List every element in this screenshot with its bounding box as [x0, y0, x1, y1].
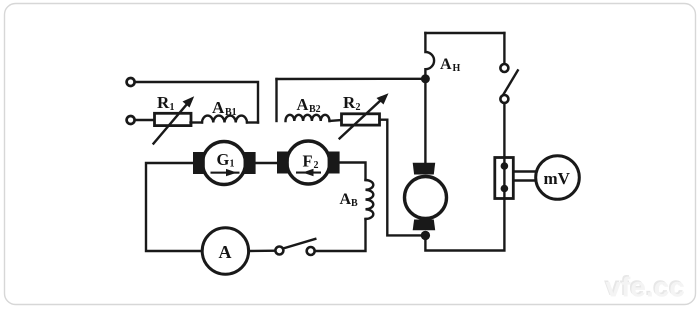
svg-text:2: 2: [356, 102, 361, 113]
inductor AB1: [202, 116, 247, 123]
junction dot bottom: [421, 231, 430, 240]
watermark vfe.cc: [604, 270, 685, 303]
wire R2 right down to motor bottom: [380, 120, 422, 236]
wire AB1 to corner: [247, 121, 258, 123]
wire R1 to AB1: [191, 121, 203, 123]
svg-text:B2: B2: [309, 104, 321, 115]
ammeter A: [202, 228, 248, 274]
svg-text:R: R: [343, 93, 356, 112]
shunt dot top: [501, 162, 509, 170]
wire top right horizontal: [425, 32, 504, 34]
rheostat arrow R2: [340, 100, 381, 138]
wire G1 to F2: [256, 162, 277, 164]
terminal top-left lower: [127, 116, 135, 124]
wire AB2 to R2: [330, 120, 342, 121]
generator G1: [203, 142, 246, 185]
exciter F2: [287, 141, 330, 184]
svg-text:A: A: [440, 56, 452, 73]
shunt lead top to mV: [513, 170, 536, 172]
switch S2 blade: [503, 70, 518, 94]
brush motor top: [413, 163, 436, 175]
svg-text:A: A: [219, 242, 232, 262]
switch S1 right contact: [307, 247, 315, 255]
switch S1 left contact: [275, 247, 283, 255]
resistor R1: [155, 113, 192, 125]
wire G1 left down to ammeter: [146, 163, 202, 251]
wire loop2 top to junction: [277, 78, 426, 81]
svg-text:1: 1: [170, 102, 175, 113]
arrow in F2: [296, 172, 321, 174]
arrow in G1: [211, 172, 240, 174]
svg-text:1: 1: [230, 159, 235, 170]
brush motor bottom: [413, 220, 436, 231]
brush G1 right: [244, 152, 256, 174]
wire AH vertical with coil: [425, 33, 434, 79]
svg-text:A: A: [297, 95, 309, 114]
brush F2 right: [328, 152, 340, 174]
switch S1 blade: [283, 239, 315, 249]
svg-text:vfe.cc: vfe.cc: [606, 272, 685, 303]
shunt lead bottom to mV: [513, 179, 536, 181]
millivoltmeter mV: [536, 156, 580, 200]
svg-text:H: H: [453, 63, 461, 74]
inductor AB vertical: [366, 180, 374, 219]
wire ammeter to switch S1: [249, 249, 276, 252]
svg-text:G: G: [217, 150, 230, 169]
wire F2 right to AB top: [340, 163, 366, 181]
wire shunt bottom to bottom rail: [425, 199, 504, 251]
terminal top-left upper: [127, 78, 135, 86]
wire junction to motor top: [424, 79, 426, 164]
wire switch S1 to AB bottom: [315, 219, 366, 251]
svg-text:2: 2: [314, 160, 319, 171]
svg-text:B: B: [351, 198, 358, 209]
svg-text:A: A: [212, 98, 225, 117]
svg-text:B1: B1: [225, 107, 237, 118]
inductor AB2: [286, 115, 330, 121]
svg-text:F: F: [303, 152, 313, 171]
svg-text:A: A: [340, 191, 352, 208]
junction dot top: [421, 74, 430, 83]
resistor R2: [342, 114, 380, 125]
motor armature M: [405, 177, 447, 219]
brush F2 left: [277, 152, 289, 174]
wire top terminal to right and down: [135, 82, 258, 123]
rheostat arrow R1: [154, 104, 188, 144]
shunt resistor RS: [495, 158, 514, 199]
shunt dot bottom: [501, 185, 509, 193]
switch S2 top contact: [500, 64, 508, 72]
wire switch S2 to shunt: [503, 103, 505, 158]
wire down to switch S2: [503, 33, 505, 64]
wire lower terminal to R1: [135, 119, 155, 121]
switch S2 bottom contact: [500, 95, 508, 103]
wire loop2 left vertical: [275, 79, 277, 121]
svg-text:R: R: [157, 93, 170, 112]
brush G1 left: [193, 152, 205, 174]
svg-text:mV: mV: [544, 169, 571, 188]
